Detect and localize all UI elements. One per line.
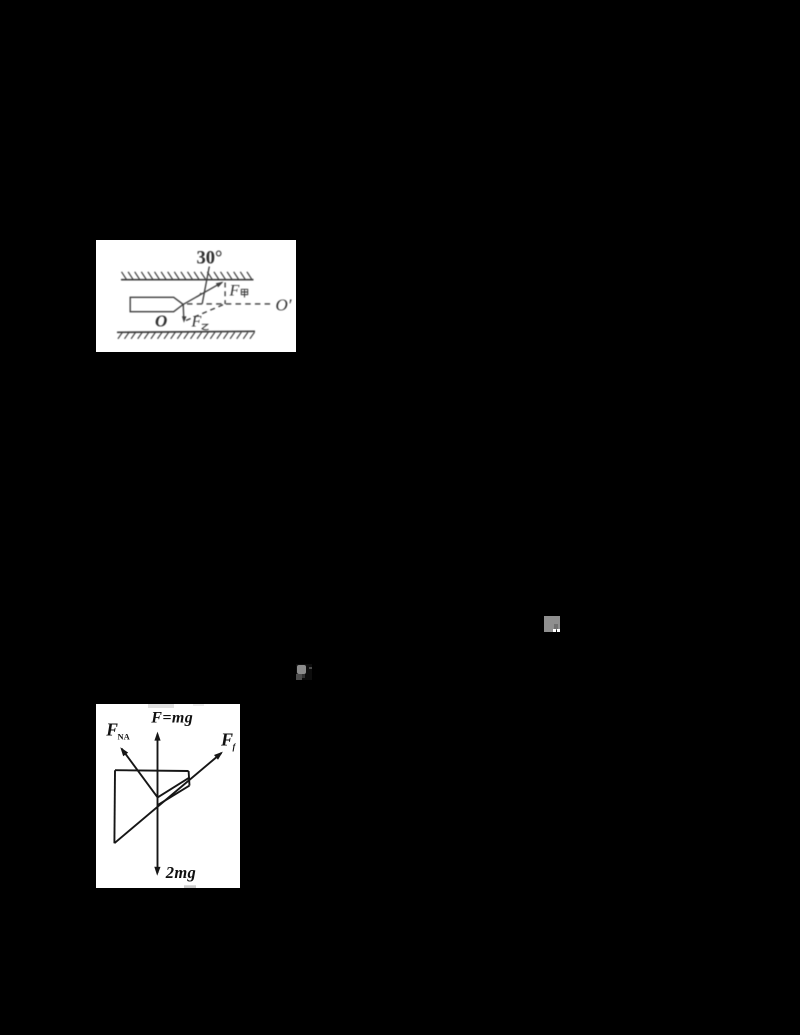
dashed diagonal of parallelogram: [186, 304, 225, 321]
arrowhead down: [154, 867, 160, 876]
floor line: [117, 331, 255, 332]
svg-text:f: f: [233, 741, 237, 751]
dashed line O to O': [187, 303, 273, 305]
block right edge: [188, 771, 191, 786]
vertical shaft F=mg / 2mg: [157, 734, 159, 873]
arrowhead F_NA: [120, 747, 128, 756]
svg-text:O′: O′: [276, 296, 292, 315]
subscript yi (Z-curl) of F: [202, 324, 209, 329]
dashed vertical component line: [224, 283, 226, 305]
F_NA shaft: [122, 749, 158, 798]
block left edge: [113, 770, 116, 843]
subscript jia (boxed grid) of F: [241, 289, 247, 297]
arrowhead of downward component: [182, 316, 187, 323]
wedge bottom edge: [158, 786, 190, 805]
svg-text:30°: 30°: [197, 248, 223, 268]
arrowhead F_f: [214, 752, 223, 760]
gray artifact square 2: [296, 664, 312, 680]
steep 30-degree reference line: [202, 267, 209, 304]
floor hatching: [118, 332, 255, 339]
faint remnant bottom: [184, 885, 196, 888]
svg-text:F: F: [220, 729, 233, 749]
ceiling line: [121, 279, 254, 281]
svg-text:2mg: 2mg: [165, 863, 196, 882]
figure panel 2: force diagram on wedge block: [96, 704, 240, 888]
rod (pointed bar, tip at O): [130, 297, 183, 311]
svg-text:NA: NA: [118, 732, 131, 742]
block top edge: [115, 769, 189, 772]
downward arrow shaft: [182, 304, 185, 319]
arrowhead up: [154, 732, 160, 741]
arrowhead of F: [216, 282, 224, 288]
angle arc: [196, 293, 201, 297]
svg-text:F: F: [105, 719, 118, 739]
figure panel 1: rod hinged between ceiling and floor, force decomposition: [96, 240, 296, 352]
svg-text:F: F: [191, 314, 202, 331]
svg-text:O: O: [155, 312, 167, 331]
gray artifact square 1: [544, 616, 560, 632]
wedge top edge: [158, 777, 190, 797]
svg-text:F: F: [229, 283, 240, 300]
svg-text:F=mg: F=mg: [150, 710, 193, 727]
force arrow F shaft: [183, 282, 222, 304]
faint cropped text remnant top: [148, 704, 174, 708]
ceiling hatching: [122, 272, 252, 279]
F_f shaft (long diagonal from bottom-left corner): [114, 753, 221, 843]
